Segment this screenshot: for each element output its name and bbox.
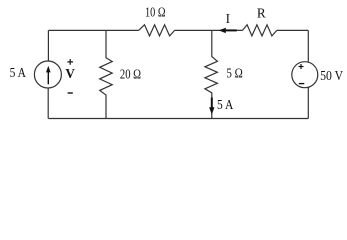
polarity plus sign inside voltage source V1 [299, 64, 304, 69]
polarity minus sign of voltage V (left branch) [68, 92, 73, 94]
current arrow I (pointing left into node B on top wire) [219, 28, 237, 33]
wire right branch lower lead [307, 87, 309, 118]
wire right branch upper lead [307, 30, 309, 62]
resistor 20 ohm (vertical zigzag with leads, node A branch) [100, 30, 113, 118]
svg-text:R: R [257, 5, 266, 20]
resistor R (horizontal zigzag, top right) [243, 25, 277, 36]
wire top-right segment and right corner [277, 29, 309, 31]
wire top-left segment (node A to 10-ohm resistor) [48, 29, 138, 31]
voltage source V1 (50 V) circle [292, 62, 318, 88]
polarity plus sign of voltage V (left branch) [67, 59, 73, 65]
polarity minus sign inside voltage source V1 [299, 83, 305, 85]
svg-text:V: V [65, 66, 75, 81]
current source I1 internal up-arrow [46, 66, 51, 85]
svg-text:5 Ω: 5 Ω [226, 65, 243, 80]
current source I1 (5 A) circle [34, 61, 61, 88]
resistor 10 ohm (horizontal zigzag, top wire) [139, 25, 175, 36]
svg-text:5 A: 5 A [10, 65, 27, 80]
wire bottom rail [48, 118, 308, 120]
svg-text:20 Ω: 20 Ω [120, 66, 141, 81]
current arrow 5 A (pointing down below 5-ohm resistor) [209, 98, 214, 115]
wire left branch upper lead [47, 30, 49, 61]
svg-text:I: I [226, 11, 230, 26]
resistor 5 ohm (vertical zigzag with leads, node B branch) [205, 30, 218, 118]
wire top-middle segment (10-ohm to node B junction) [175, 29, 243, 31]
svg-text:10 Ω: 10 Ω [145, 4, 166, 19]
svg-text:5 A: 5 A [217, 97, 234, 112]
svg-text:50 V: 50 V [320, 68, 343, 83]
wire left branch lower lead [47, 88, 49, 119]
